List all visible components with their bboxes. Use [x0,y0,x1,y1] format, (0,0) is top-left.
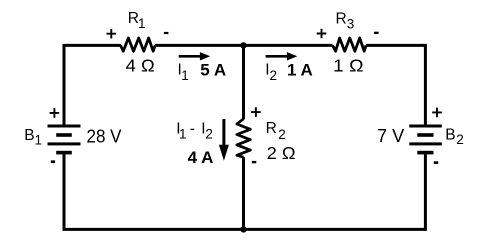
R3 minus polarity [374,32,379,34]
wire R3 to B2 positive plate [366,45,425,124]
B1 minus polarity [51,160,55,163]
wire B2 negative plate to bottom rail [424,154,427,229]
svg-text:4 A: 4 A [188,148,214,167]
current arrow I1 [179,52,211,60]
svg-text:1 Ω: 1 Ω [333,56,364,76]
R1 minus polarity [164,32,169,34]
svg-text:5 A: 5 A [200,61,226,80]
svg-text:1: 1 [138,16,146,31]
bottom node junction dot [240,226,246,232]
svg-text:3: 3 [347,16,355,31]
R2 plus polarity [251,107,261,117]
R2 reference label [266,120,286,142]
svg-text:2: 2 [270,68,278,83]
svg-text:2: 2 [456,132,464,147]
battery B2 [409,125,442,155]
resistor R3 [333,38,366,51]
svg-text:B: B [445,127,455,144]
svg-text:R: R [266,120,277,137]
R3 plus polarity [317,29,327,39]
svg-text:R: R [336,11,347,28]
wire node A to R3 [244,44,333,47]
wire B1 negative plate to bottom rail [63,154,66,229]
svg-text:B: B [24,127,34,144]
B1 plus polarity [50,108,60,118]
current arrow I2 [266,52,298,60]
R2 minus polarity [252,161,256,163]
wire R1 to node A [155,44,243,47]
bottom rail wire [63,228,427,231]
I2 current label [265,62,277,83]
current arrow I1 - I2 pointing down [219,119,229,161]
svg-text:2: 2 [278,127,286,142]
B2 reference label [445,127,463,148]
wire R2 to bottom node [242,157,245,229]
svg-text:2: 2 [205,126,213,141]
svg-text:1: 1 [35,133,43,148]
B1 reference label [24,127,42,148]
R1 reference label [128,10,146,31]
R3 reference label [336,11,355,32]
svg-text:28 V: 28 V [87,126,123,146]
svg-text:1: 1 [179,126,187,141]
svg-text:-: - [190,121,195,138]
svg-text:1: 1 [181,68,189,83]
resistor R2 [237,119,250,157]
svg-text:4 Ω: 4 Ω [126,55,155,75]
R1 plus polarity [107,29,117,39]
svg-text:1 A: 1 A [287,61,313,80]
node A junction dot [240,42,246,48]
B2 plus polarity [432,108,442,118]
resistor R1 [121,38,156,51]
I1 current label [178,62,189,83]
battery B1 [48,125,81,155]
B2 minus polarity [434,161,438,164]
wire from B1 positive plate up and across to R1 [64,45,121,124]
current label I1 - I2 [176,121,213,142]
wire node A down to R2 [242,45,245,119]
svg-text:7 V: 7 V [377,126,405,146]
svg-text:2 Ω: 2 Ω [267,143,296,163]
